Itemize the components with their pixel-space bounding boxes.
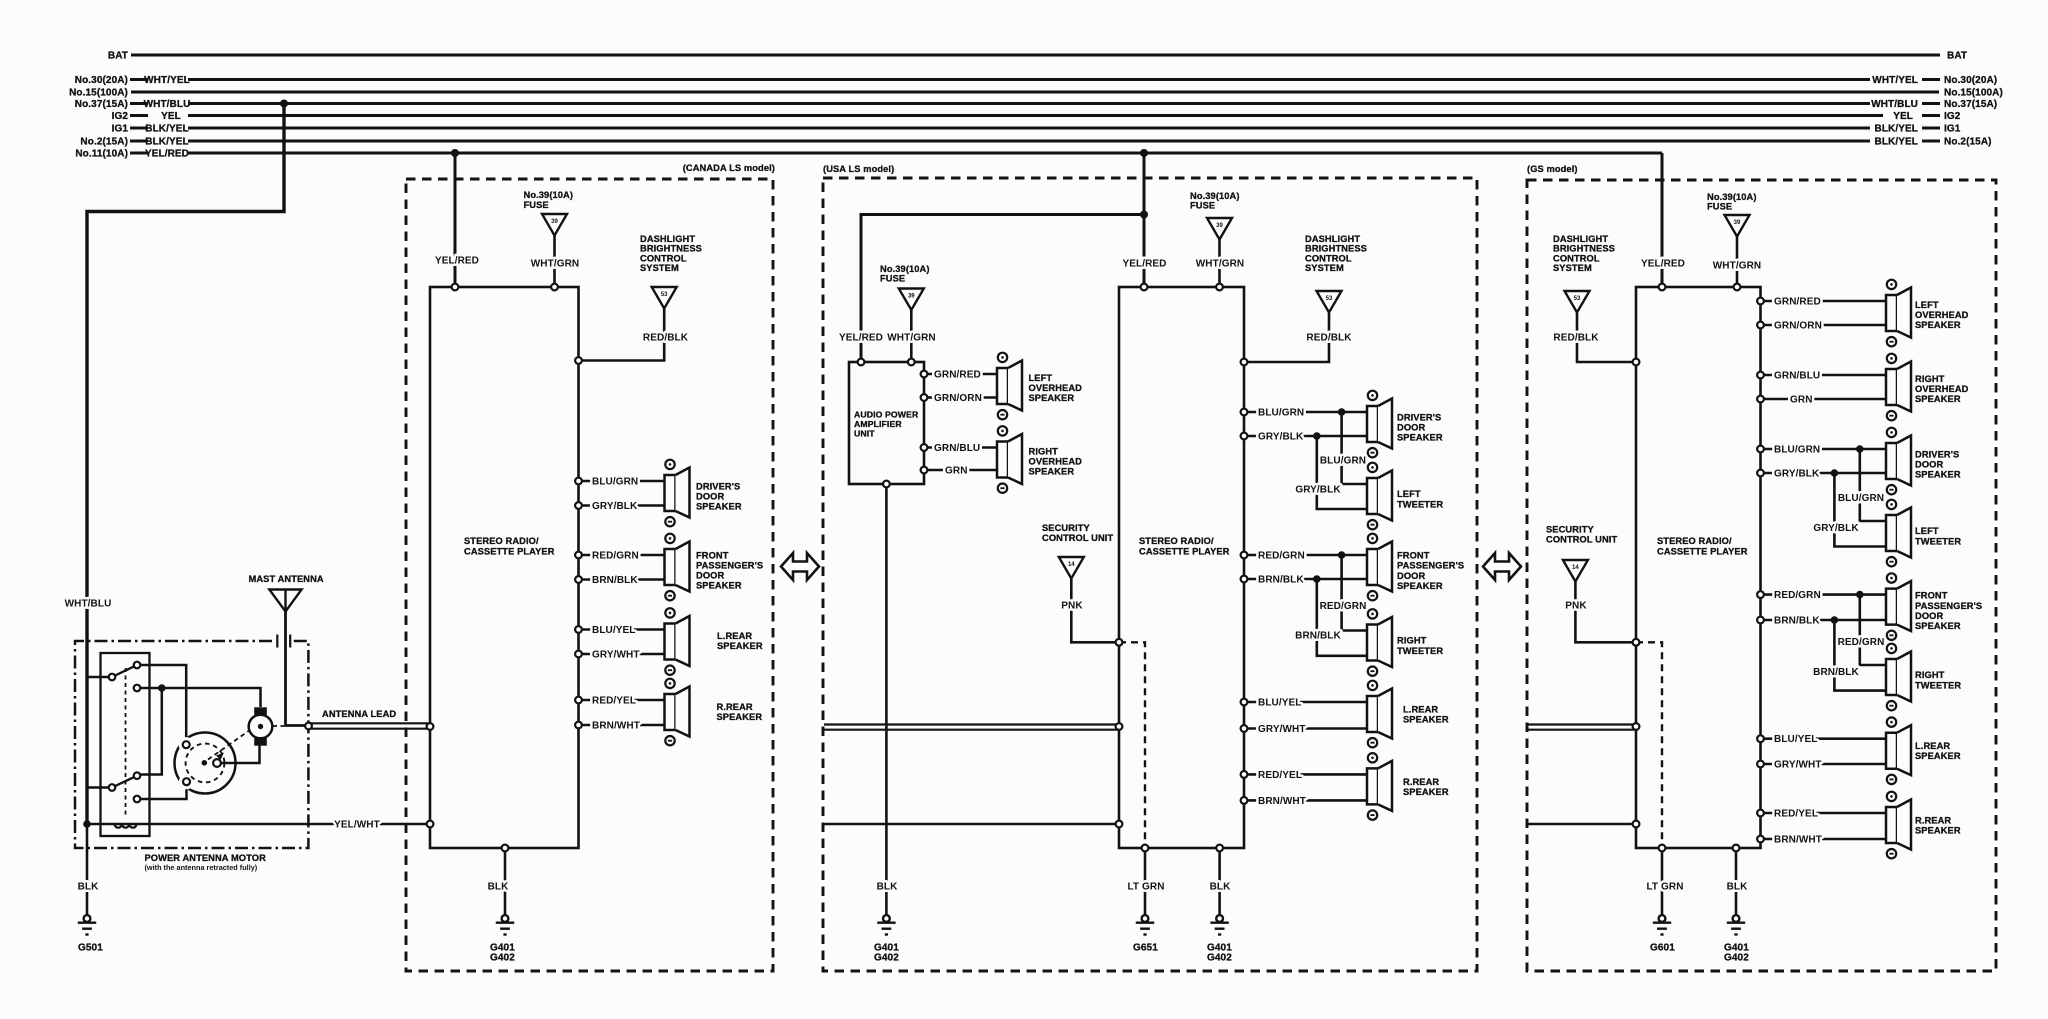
dashlight brightness control system (Canada) — [640, 234, 702, 309]
svg-text:BRIGHTNESS: BRIGHTNESS — [640, 244, 702, 254]
svg-text:RED/GRN: RED/GRN — [1774, 590, 1821, 601]
wire WHT/GRN fuse to radio (Canada) — [531, 236, 579, 288]
svg-text:SPEAKER: SPEAKER — [696, 502, 742, 512]
wire BLK to ground — [78, 824, 100, 915]
speaker right tweeter (GS) — [1886, 644, 1961, 711]
wire upper contact B to motor terminal 1 — [137, 665, 186, 741]
wire BLK radio to ground (Canada) — [488, 848, 510, 915]
wire BLK radio to ground (USA) — [1210, 848, 1232, 915]
svg-text:BLU/YEL: BLU/YEL — [1258, 698, 1301, 709]
wire RED/YEL to R rear speaker (GS) — [1761, 809, 1887, 820]
svg-text:GRY/WHT: GRY/WHT — [1258, 724, 1306, 735]
svg-text:FUSE: FUSE — [880, 274, 905, 284]
wire RED/YEL to R rear speaker (USA) — [1244, 770, 1367, 781]
svg-text:G402: G402 — [874, 953, 899, 964]
armature motor M1 — [249, 707, 273, 745]
svg-text:TWEETER: TWEETER — [1397, 646, 1443, 656]
junction on No.37 bus — [280, 100, 288, 108]
connector arrow between USA and GS panels — [1483, 553, 1521, 580]
ground G401 G402 (amp) — [874, 915, 899, 963]
wire No.2(15A) BLK/YEL bus — [130, 139, 1940, 142]
svg-text:BLK: BLK — [1727, 882, 1749, 893]
svg-text:RED/BLK: RED/BLK — [1306, 333, 1352, 344]
security control unit (USA) — [1042, 523, 1113, 579]
svg-text:No.2(15A): No.2(15A) — [1944, 137, 1992, 148]
wire PNK security to radio (USA) — [1061, 579, 1119, 643]
label ANTENNA LEAD — [322, 709, 396, 719]
panel border (GS model) — [1527, 164, 1996, 971]
svg-text:DRIVER'S: DRIVER'S — [1915, 450, 1959, 460]
svg-text:CASSETTE PLAYER: CASSETTE PLAYER — [1657, 547, 1748, 557]
svg-text:GRN/ORN: GRN/ORN — [1774, 321, 1822, 332]
wire BRN/WHT to R rear speaker (USA) — [1244, 796, 1367, 807]
wire WHT/GRN fuse to radio (GS) — [1713, 237, 1761, 288]
wire WHT/BLU from No.37 bus to power antenna — [87, 104, 284, 825]
svg-text:GRN: GRN — [945, 466, 968, 477]
svg-text:G402: G402 — [490, 953, 515, 964]
wire LT GRN radio to ground G601 — [1646, 848, 1683, 915]
svg-text:GRN/RED: GRN/RED — [934, 370, 981, 381]
svg-text:TWEETER: TWEETER — [1915, 537, 1961, 547]
wire No.11(10A) YEL/RED bus — [130, 151, 1662, 154]
svg-text:YEL/RED: YEL/RED — [839, 333, 883, 344]
antenna feed-through ticks on enclosure — [277, 635, 290, 648]
svg-text:STEREO RADIO/: STEREO RADIO/ — [1139, 536, 1214, 546]
svg-text:BLK/YEL: BLK/YEL — [145, 124, 188, 135]
svg-text:GRN: GRN — [1790, 395, 1813, 406]
wire BLU/GRN to driver's door speaker (Canada) — [579, 477, 665, 488]
label YEL/RED (GS) — [1641, 259, 1685, 270]
svg-text:14: 14 — [1572, 565, 1579, 571]
svg-text:No.2(15A): No.2(15A) — [80, 137, 128, 148]
svg-text:No.30(20A): No.30(20A) — [1944, 75, 1997, 86]
svg-text:BAT: BAT — [108, 51, 128, 62]
svg-text:WHT/BLU: WHT/BLU — [144, 99, 191, 110]
svg-text:OVERHEAD: OVERHEAD — [1915, 310, 1969, 320]
bus labels right — [1871, 51, 2003, 148]
svg-text:UNIT: UNIT — [854, 429, 875, 439]
svg-text:IG2: IG2 — [112, 111, 129, 122]
svg-text:SPEAKER: SPEAKER — [1029, 393, 1075, 403]
wire armature lower brush to motor contact — [221, 744, 260, 763]
svg-text:SPEAKER: SPEAKER — [1029, 467, 1075, 477]
svg-text:SPEAKER: SPEAKER — [1397, 581, 1443, 591]
wire BRN/BLK to front passenger's door speaker (Canada) — [579, 575, 665, 586]
svg-text:GRY/WHT: GRY/WHT — [592, 650, 640, 661]
svg-text:R.REAR: R.REAR — [717, 702, 753, 712]
wire GRN/BLU amp to right overhead speaker — [924, 443, 997, 454]
connector circles on GS radio — [1633, 284, 1764, 852]
wire GRN/ORN to left overhead speaker (GS) — [1761, 321, 1887, 332]
wire lower switch common from WHT/BLU — [87, 786, 109, 789]
speaker L rear (Canada) — [665, 608, 763, 675]
speaker right tweeter (USA) — [1367, 609, 1443, 676]
svg-text:RIGHT: RIGHT — [1397, 636, 1427, 646]
svg-text:BRN/BLK: BRN/BLK — [1258, 575, 1304, 586]
antenna lead stub (USA) — [824, 725, 1119, 730]
speaker R rear (Canada) — [665, 679, 763, 746]
svg-text:GRY/BLK: GRY/BLK — [1295, 485, 1341, 496]
svg-text:L.REAR: L.REAR — [717, 631, 752, 641]
node WHT/BLU label — [65, 599, 112, 610]
ground G601 — [1650, 915, 1675, 953]
wire YEL/WHT stub (GS) — [1528, 823, 1636, 826]
wire RED/YEL to R rear speaker (Canada) — [579, 696, 665, 707]
wire BLU/GRN to driver's door speaker (USA) — [1244, 408, 1367, 419]
svg-text:YEL/WHT: YEL/WHT — [334, 820, 380, 831]
junction YEL/RED branch — [1140, 211, 1148, 219]
svg-text:DRIVER'S: DRIVER'S — [696, 482, 740, 492]
svg-text:(CANADA LS model): (CANADA LS model) — [683, 163, 775, 173]
antenna lead coax (double line) to Canada radio — [309, 723, 429, 728]
wire BLU/GRN branch to left tweeter (GS) — [1838, 449, 1886, 521]
wire BLU/GRN to driver's door speaker (GS) — [1761, 445, 1887, 456]
mechanical link motor to armature (dashed) — [208, 730, 250, 760]
speaker driver's door (GS) — [1886, 428, 1961, 495]
internal dashed link PNK to LT GRN ground (GS radio) — [1636, 642, 1662, 848]
ground G501 — [78, 915, 103, 953]
svg-text:(USA LS model): (USA LS model) — [823, 164, 894, 174]
svg-text:RED/GRN: RED/GRN — [592, 551, 639, 562]
svg-text:DOOR: DOOR — [1915, 460, 1943, 470]
svg-text:IG2: IG2 — [1944, 111, 1961, 122]
wire YEL/RED drop to USA panel radio — [1143, 153, 1146, 287]
svg-text:YEL/RED: YEL/RED — [145, 149, 189, 160]
svg-text:RIGHT: RIGHT — [1915, 670, 1945, 680]
svg-text:WHT/GRN: WHT/GRN — [531, 259, 579, 270]
svg-text:WHT/YEL: WHT/YEL — [144, 75, 190, 86]
power antenna motor enclosure (dash-dot box) — [75, 641, 308, 848]
wire upper contact C to armature brush — [137, 688, 261, 707]
wire BLU/YEL to L rear speaker (GS) — [1761, 734, 1887, 745]
wire cross link C to lower contact E — [137, 688, 162, 775]
wire BRN/BLK to front passenger's door speaker (GS) — [1761, 616, 1887, 627]
dashlight brightness control system (GS) — [1553, 234, 1615, 313]
svg-text:BLK/YEL: BLK/YEL — [1875, 137, 1918, 148]
svg-text:PASSENGER'S: PASSENGER'S — [1397, 561, 1464, 571]
ground G401 G402 (GS) — [1724, 915, 1749, 963]
upper switch arm — [112, 665, 137, 677]
label YEL/RED (amp) — [839, 333, 883, 344]
speaker R rear (GS) — [1886, 792, 1961, 859]
svg-text:BAT: BAT — [1947, 51, 1967, 62]
wire No.15(100A) bus — [131, 90, 1939, 93]
mechanical link armature to mast (dashed) — [273, 725, 285, 727]
motor body — [175, 733, 236, 794]
label POWER ANTENNA MOTOR — [145, 853, 267, 872]
speaker left overhead (GS) — [1886, 280, 1969, 347]
wire GRY/BLK to driver's door speaker (USA) — [1244, 432, 1367, 443]
svg-text:DOOR: DOOR — [696, 571, 724, 581]
switch contact circles — [109, 662, 141, 803]
svg-text:AUDIO POWER: AUDIO POWER — [854, 410, 919, 420]
svg-text:FRONT: FRONT — [1915, 591, 1948, 601]
svg-text:DRIVER'S: DRIVER'S — [1397, 413, 1441, 423]
svg-text:SPEAKER: SPEAKER — [1915, 751, 1961, 761]
svg-text:WHT/GRN: WHT/GRN — [1196, 259, 1244, 270]
svg-text:RED/GRN: RED/GRN — [1258, 551, 1305, 562]
svg-text:LEFT: LEFT — [1915, 300, 1939, 310]
wire GRY/WHT to L rear speaker (USA) — [1244, 724, 1367, 735]
wire GRN/RED to left overhead speaker (GS) — [1761, 297, 1887, 308]
fuse No.39(10A) (GS) — [1707, 192, 1757, 237]
svg-text:BLU/GRN: BLU/GRN — [1838, 493, 1884, 504]
svg-text:53: 53 — [661, 292, 668, 298]
wire YEL/WHT from relay to Canada radio — [87, 823, 428, 826]
label YEL/RED (Canada) — [435, 256, 479, 267]
stereo radio/cassette player (Canada) — [430, 287, 579, 848]
ground G651 — [1133, 915, 1158, 953]
junction BLU/GRN (GS) — [1856, 445, 1864, 453]
svg-text:STEREO RADIO/: STEREO RADIO/ — [1657, 536, 1732, 546]
svg-text:PASSENGER'S: PASSENGER'S — [696, 561, 763, 571]
svg-text:RED/BLK: RED/BLK — [1553, 333, 1599, 344]
wire GRY/WHT to L rear speaker (GS) — [1761, 760, 1887, 771]
svg-text:YEL/RED: YEL/RED — [1641, 259, 1685, 270]
svg-text:SECURITY: SECURITY — [1042, 523, 1091, 533]
svg-text:WHT/YEL: WHT/YEL — [1872, 75, 1918, 86]
svg-text:No.39(10A): No.39(10A) — [1707, 192, 1757, 202]
svg-text:SPEAKER: SPEAKER — [1915, 470, 1961, 480]
svg-text:No.15(100A): No.15(100A) — [1944, 88, 2003, 99]
junction BRN/BLK (GS) — [1831, 616, 1839, 624]
junction WHT/BLU with coil/ground line — [83, 820, 91, 828]
svg-text:LEFT: LEFT — [1915, 526, 1939, 536]
svg-text:G402: G402 — [1724, 953, 1749, 964]
svg-text:LT GRN: LT GRN — [1127, 882, 1164, 893]
wire BLU/YEL to L rear speaker (Canada) — [579, 625, 665, 636]
svg-text:OVERHEAD: OVERHEAD — [1915, 384, 1969, 394]
svg-text:YEL: YEL — [161, 111, 181, 122]
wire GRN/RED amp to left overhead speaker — [924, 370, 997, 381]
wire GRY/BLK to driver's door speaker (GS) — [1761, 469, 1887, 480]
svg-text:SYSTEM: SYSTEM — [1553, 263, 1592, 273]
wire IG1 BLK/YEL bus — [130, 126, 1940, 129]
svg-text:RIGHT: RIGHT — [1915, 374, 1945, 384]
svg-text:BRN/WHT: BRN/WHT — [1774, 835, 1822, 846]
svg-text:No.39(10A): No.39(10A) — [880, 264, 930, 274]
svg-text:BLU/YEL: BLU/YEL — [1774, 734, 1817, 745]
svg-text:No.39(10A): No.39(10A) — [1190, 191, 1240, 201]
svg-text:SPEAKER: SPEAKER — [1403, 787, 1449, 797]
svg-text:SPEAKER: SPEAKER — [696, 581, 742, 591]
ground G401 G402 (USA radio) — [1207, 915, 1232, 963]
label YEL/WHT — [334, 820, 380, 831]
svg-text:OVERHEAD: OVERHEAD — [1029, 457, 1083, 467]
junction RED/GRN (USA) — [1338, 551, 1346, 559]
svg-text:SPEAKER: SPEAKER — [717, 641, 763, 651]
svg-text:GRN/BLU: GRN/BLU — [934, 443, 980, 454]
svg-text:RED/YEL: RED/YEL — [1774, 809, 1818, 820]
speaker L rear (GS) — [1886, 717, 1961, 784]
svg-text:(with the antenna retracted fu: (with the antenna retracted fully) — [145, 863, 258, 872]
svg-text:FUSE: FUSE — [524, 200, 549, 210]
wire YEL/WHT stub (USA) — [824, 823, 1119, 826]
speaker L rear (USA) — [1367, 681, 1449, 748]
panel border (CANADA LS model) — [406, 163, 775, 971]
wire BLK radio to ground (GS) — [1727, 848, 1749, 915]
svg-text:BRIGHTNESS: BRIGHTNESS — [1305, 244, 1367, 254]
svg-text:SPEAKER: SPEAKER — [1403, 715, 1449, 725]
svg-text:BLU/YEL: BLU/YEL — [592, 625, 635, 636]
svg-text:SYSTEM: SYSTEM — [1305, 263, 1344, 273]
wire BLU/YEL to L rear speaker (USA) — [1244, 698, 1367, 709]
svg-text:SPEAKER: SPEAKER — [1397, 433, 1443, 443]
svg-text:BLU/GRN: BLU/GRN — [1258, 408, 1304, 419]
svg-text:DASHLIGHT: DASHLIGHT — [1553, 234, 1608, 244]
wire lower contact F to motor terminal 2 — [137, 785, 187, 799]
wire BRN/WHT to R rear speaker (GS) — [1761, 835, 1887, 846]
svg-text:SPEAKER: SPEAKER — [1915, 826, 1961, 836]
svg-text:SPEAKER: SPEAKER — [717, 712, 763, 722]
svg-text:LT GRN: LT GRN — [1646, 882, 1683, 893]
svg-text:BRN/BLK: BRN/BLK — [1295, 631, 1341, 642]
svg-text:No.37(15A): No.37(15A) — [1944, 99, 1997, 110]
wire GRY/BLK branch to left tweeter (GS) — [1813, 473, 1886, 547]
svg-text:BRN/BLK: BRN/BLK — [592, 575, 638, 586]
svg-text:DOOR: DOOR — [1397, 571, 1425, 581]
svg-text:39: 39 — [1216, 223, 1223, 229]
svg-text:SYSTEM: SYSTEM — [640, 263, 679, 273]
svg-text:PNK: PNK — [1061, 601, 1083, 612]
speaker left overhead (USA) — [997, 353, 1082, 420]
junction BRN/BLK (USA) — [1313, 575, 1321, 583]
svg-text:BLK/YEL: BLK/YEL — [145, 137, 188, 148]
svg-text:CASSETTE PLAYER: CASSETTE PLAYER — [464, 547, 555, 557]
svg-text:BLU/GRN: BLU/GRN — [1320, 456, 1366, 467]
svg-text:No.30(20A): No.30(20A) — [75, 75, 128, 86]
panel border (USA LS model) — [823, 164, 1477, 971]
svg-text:BRN/WHT: BRN/WHT — [1258, 796, 1306, 807]
svg-text:GRN/ORN: GRN/ORN — [934, 393, 982, 404]
wire GRN/ORN amp to left overhead speaker — [924, 393, 997, 404]
svg-text:39: 39 — [1734, 220, 1741, 226]
svg-text:AMPLIFIER: AMPLIFIER — [854, 419, 902, 429]
lower switch arm — [112, 776, 137, 788]
junction on contact C wire — [158, 684, 166, 692]
svg-text:SECURITY: SECURITY — [1546, 525, 1595, 535]
antenna lead stub (GS) — [1528, 725, 1636, 730]
svg-text:GRY/BLK: GRY/BLK — [1813, 523, 1859, 534]
label YEL/RED (USA radio) — [1122, 259, 1166, 270]
wire RED/BLK dashlight to radio (GS) — [1553, 313, 1636, 363]
wire GRY/BLK to driver's door speaker (Canada) — [579, 501, 665, 512]
junction on No.11 bus at x1144 — [1140, 149, 1148, 157]
speaker right overhead (GS) — [1886, 354, 1969, 421]
wire RED/GRN branch to right tweeter (USA) — [1320, 555, 1367, 631]
wire WHT/GRN fuse to radio (USA) — [1196, 240, 1244, 288]
svg-text:BRIGHTNESS: BRIGHTNESS — [1553, 244, 1615, 254]
connector circles on Canada radio — [427, 284, 582, 852]
svg-text:ANTENNA LEAD: ANTENNA LEAD — [322, 709, 396, 719]
svg-text:53: 53 — [1574, 296, 1581, 302]
junction GRY/BLK (GS) — [1831, 469, 1839, 477]
speaker right overhead (USA) — [997, 426, 1082, 493]
wire GRY/BLK branch to left tweeter (USA) — [1295, 436, 1367, 509]
svg-text:WHT/BLU: WHT/BLU — [65, 599, 112, 610]
svg-text:WHT/BLU: WHT/BLU — [1871, 99, 1918, 110]
svg-text:PASSENGER'S: PASSENGER'S — [1915, 601, 1982, 611]
svg-text:GRY/BLK: GRY/BLK — [1258, 432, 1304, 443]
svg-text:G501: G501 — [78, 943, 103, 954]
speaker left tweeter (GS) — [1886, 500, 1961, 567]
svg-text:RED/BLK: RED/BLK — [643, 333, 689, 344]
wire RED/GRN to front passenger's door speaker (Canada) — [579, 551, 665, 562]
svg-text:53: 53 — [1326, 296, 1333, 302]
svg-text:SPEAKER: SPEAKER — [1915, 621, 1961, 631]
svg-text:IG1: IG1 — [1944, 124, 1961, 135]
connector at motor box edge (antenna lead) — [305, 723, 312, 730]
svg-text:39: 39 — [908, 294, 915, 300]
wire No.30(20A) WHT/YEL bus — [130, 78, 1940, 81]
relay mechanical linkage (dashed) — [125, 668, 127, 818]
svg-text:(GS model): (GS model) — [1527, 164, 1578, 174]
relay box inside motor unit — [101, 653, 150, 836]
wire RED/GRN to front passenger's door speaker (GS) — [1761, 590, 1887, 601]
svg-text:DASHLIGHT: DASHLIGHT — [1305, 234, 1360, 244]
svg-text:MAST ANTENNA: MAST ANTENNA — [249, 574, 324, 584]
label MAST ANTENNA — [249, 574, 324, 584]
stereo radio/cassette player (GS) — [1636, 287, 1761, 848]
svg-text:R.REAR: R.REAR — [1403, 777, 1439, 787]
svg-text:DOOR: DOOR — [1397, 423, 1425, 433]
wire GRN/BLU to right overhead speaker (GS) — [1761, 371, 1887, 382]
svg-text:RED/YEL: RED/YEL — [1258, 770, 1302, 781]
svg-text:No.37(15A): No.37(15A) — [75, 99, 128, 110]
svg-text:BLK: BLK — [877, 882, 899, 893]
svg-text:BLU/GRN: BLU/GRN — [1774, 445, 1820, 456]
speaker front passenger's door (GS) — [1886, 573, 1982, 640]
wire WHT/GRN fuse to amp — [887, 310, 935, 362]
wire BLU/GRN branch to left tweeter (USA) — [1320, 412, 1367, 484]
wire RED/BLK dashlight to radio (Canada) — [579, 309, 689, 361]
svg-text:OVERHEAD: OVERHEAD — [1029, 383, 1083, 393]
svg-text:CASSETTE PLAYER: CASSETTE PLAYER — [1139, 547, 1230, 557]
svg-text:STEREO RADIO/: STEREO RADIO/ — [464, 536, 539, 546]
wire YEL/RED turn-down to GS panel radio — [1661, 153, 1664, 287]
wire RED/GRN to front passenger's door speaker (USA) — [1244, 551, 1367, 562]
bus labels left — [69, 51, 190, 160]
svg-text:RED/GRN: RED/GRN — [1320, 601, 1367, 612]
junction RED/GRN (GS) — [1856, 591, 1864, 599]
wire IG2 YEL bus — [130, 114, 1940, 117]
svg-text:L.REAR: L.REAR — [1403, 705, 1438, 715]
svg-text:PNK: PNK — [1565, 601, 1587, 612]
wire No.37(15A) WHT/BLU bus — [130, 102, 1940, 105]
svg-text:TWEETER: TWEETER — [1397, 500, 1443, 510]
svg-text:FUSE: FUSE — [1190, 201, 1215, 211]
wire WHT/BLU to upper switch common — [87, 676, 109, 679]
fuse No.39(10A) (amp) — [880, 264, 930, 310]
svg-text:IG1: IG1 — [112, 124, 129, 135]
motor terminal circles — [183, 741, 221, 785]
connector circles on USA amp and radio — [858, 284, 1248, 852]
wire YEL/RED drop to Canada panel radio — [454, 153, 457, 287]
svg-text:FRONT: FRONT — [696, 551, 729, 561]
svg-text:BRN/BLK: BRN/BLK — [1813, 667, 1859, 678]
svg-text:BLK: BLK — [488, 882, 510, 893]
svg-text:CONTROL: CONTROL — [1553, 253, 1600, 263]
svg-text:GRN/BLU: GRN/BLU — [1774, 371, 1820, 382]
svg-text:LEFT: LEFT — [1397, 489, 1421, 499]
junction GRY/BLK (USA) — [1313, 432, 1321, 440]
svg-text:YEL/RED: YEL/RED — [1122, 259, 1166, 270]
ground G401 G402 (Canada) — [490, 915, 515, 963]
svg-text:YEL: YEL — [1893, 111, 1913, 122]
wire BRN/BLK branch to right tweeter (USA) — [1295, 579, 1367, 656]
svg-text:CONTROL UNIT: CONTROL UNIT — [1042, 533, 1113, 543]
junction on No.11 bus at x455 — [451, 149, 459, 157]
